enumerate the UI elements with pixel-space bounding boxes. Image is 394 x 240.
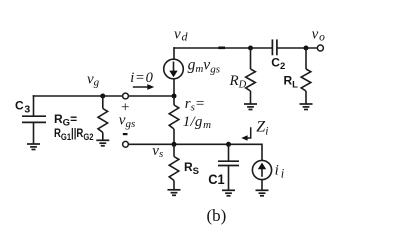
resistor RD bbox=[246, 48, 256, 104]
ground: below RL bbox=[300, 104, 313, 110]
resistor rs = 1/gm bbox=[169, 96, 179, 144]
label - polarity bbox=[123, 133, 128, 135]
svg-text:RG1||RG2: RG1||RG2 bbox=[54, 127, 94, 142]
svg-text:gmvgs: gmvgs bbox=[188, 57, 220, 76]
wire: gate rail from + terminal to rs junction bbox=[128, 95, 174, 97]
capacitor C2 bbox=[272, 39, 277, 55]
current source U1 gm*vgs bbox=[164, 59, 184, 79]
svg-text:vg: vg bbox=[87, 71, 100, 88]
wire: source rail vs from - terminal to ii corner bbox=[128, 143, 262, 145]
resistor RL bbox=[301, 48, 311, 104]
node vg junction dot bbox=[100, 94, 105, 99]
arrow: Zi looking-in hook arrow bbox=[241, 127, 250, 140]
svg-text:C1: C1 bbox=[208, 172, 225, 188]
svg-text:vo: vo bbox=[312, 26, 325, 43]
svg-text:C3: C3 bbox=[15, 98, 30, 115]
node vs junction dot at rs bottom bbox=[172, 142, 177, 147]
terminal: vgs + open circle bbox=[123, 93, 129, 99]
svg-text:vd: vd bbox=[174, 26, 188, 43]
capacitor C1 bbox=[218, 144, 239, 190]
wire: gm source bottom to gate rail junction bbox=[173, 79, 175, 97]
ground: below RG bbox=[96, 140, 109, 146]
svg-text:vs: vs bbox=[152, 143, 163, 160]
terminal: vo open circle bbox=[317, 45, 323, 51]
svg-text:i=0: i=0 bbox=[130, 70, 153, 86]
svg-text:RS: RS bbox=[184, 160, 199, 177]
svg-text:RG=: RG= bbox=[54, 112, 77, 129]
svg-text:ii: ii bbox=[275, 163, 285, 181]
svg-text:RD: RD bbox=[229, 73, 247, 90]
svg-text:1/gm: 1/gm bbox=[183, 114, 211, 131]
capacitor C3 bbox=[22, 116, 46, 122]
ground: below ii bbox=[256, 190, 269, 196]
wire: gate rail from C3 corner to vgs+ terminal bbox=[33, 95, 123, 97]
ground: below C1 bbox=[222, 190, 235, 196]
ground: below RD bbox=[244, 104, 257, 110]
current source ii bbox=[252, 160, 271, 179]
wire: C3 bottom to ground bbox=[33, 122, 35, 144]
node C1 junction dot bbox=[226, 142, 231, 147]
svg-text:RL: RL bbox=[284, 74, 299, 91]
wire: top drain rail from gm source to vo terminal bbox=[173, 47, 317, 49]
svg-text:C2: C2 bbox=[271, 55, 285, 72]
svg-text:(b): (b) bbox=[207, 206, 227, 225]
wire: overlap dash on top rail bbox=[218, 46, 225, 49]
node RL junction dot on top rail bbox=[304, 46, 309, 51]
wire: ii bottom to ground bbox=[261, 180, 263, 191]
wire: vertical stub vd node to gm source top bbox=[173, 47, 175, 59]
terminal: vgs - open circle bbox=[123, 141, 129, 147]
svg-text:Zi: Zi bbox=[256, 119, 268, 138]
resistor RS bbox=[169, 144, 179, 190]
ground: below RS bbox=[168, 190, 181, 196]
node drain-gate junction dot at rs top bbox=[172, 94, 177, 99]
ground: below C3 bbox=[27, 144, 40, 150]
svg-text:rs=: rs= bbox=[185, 96, 205, 113]
node RD junction dot on top rail bbox=[248, 46, 253, 51]
wire: left drop to C3 bbox=[33, 95, 35, 116]
arrow: i=0 gate current arrow bbox=[133, 84, 154, 90]
resistor RG bbox=[98, 96, 108, 140]
wire: drop from source rail to ii source bbox=[261, 144, 263, 161]
